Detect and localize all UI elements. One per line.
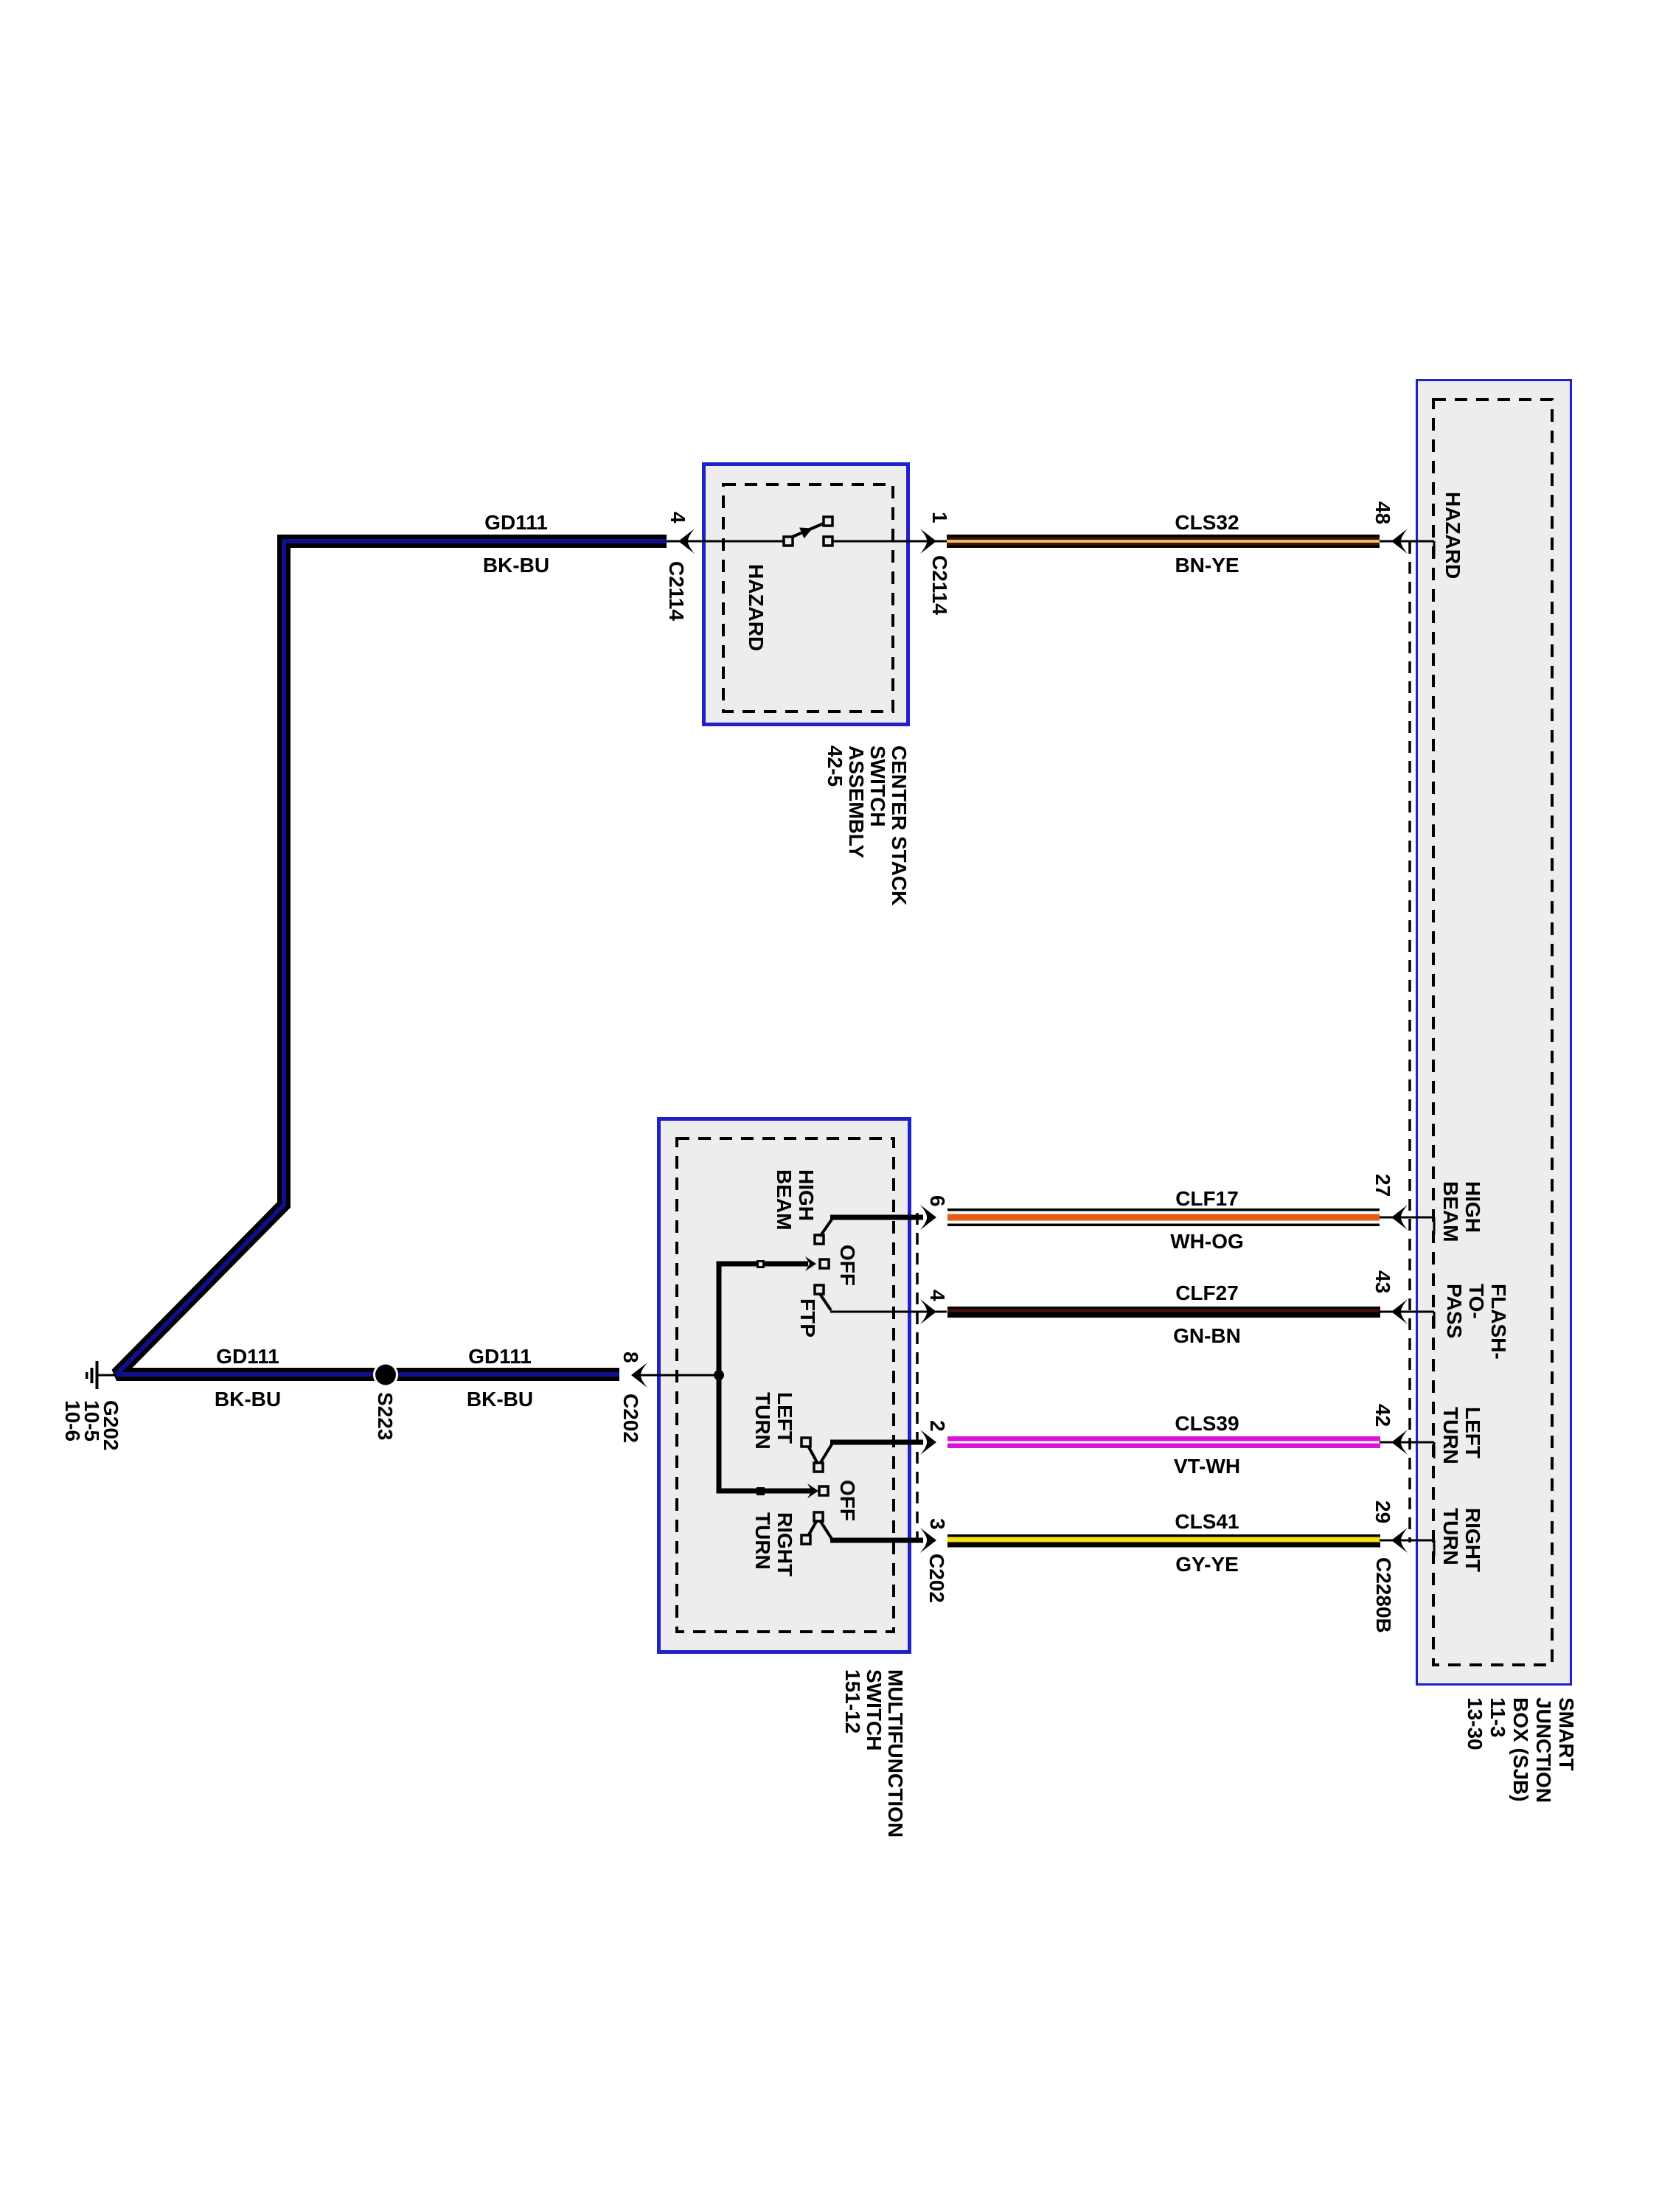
svg-text:FLASH-: FLASH-	[1487, 1284, 1510, 1360]
svg-text:MULTIFUNCTION: MULTIFUNCTION	[884, 1669, 907, 1837]
svg-text:SWITCH: SWITCH	[866, 745, 889, 827]
svg-text:HAZARD: HAZARD	[745, 564, 768, 651]
svg-text:SWITCH: SWITCH	[863, 1669, 886, 1750]
svg-text:HIGH: HIGH	[1461, 1181, 1484, 1233]
svg-text:GD111: GD111	[484, 511, 548, 534]
svg-text:6: 6	[926, 1195, 949, 1207]
svg-text:42-5: 42-5	[824, 745, 846, 787]
svg-text:GD111: GD111	[468, 1345, 532, 1368]
svg-text:CENTER STACK: CENTER STACK	[888, 745, 911, 905]
svg-text:11-3: 11-3	[1486, 1697, 1509, 1738]
svg-text:1: 1	[928, 512, 951, 524]
svg-text:BN-YE: BN-YE	[1175, 554, 1239, 577]
svg-text:CLF17: CLF17	[1175, 1187, 1239, 1210]
svg-text:C202: C202	[925, 1554, 948, 1603]
svg-text:HAZARD: HAZARD	[1441, 492, 1464, 579]
svg-text:29: 29	[1371, 1500, 1394, 1523]
svg-text:PASS: PASS	[1443, 1284, 1466, 1338]
svg-text:TURN: TURN	[1439, 1508, 1462, 1565]
svg-text:CLS39: CLS39	[1175, 1412, 1239, 1435]
svg-text:TURN: TURN	[1439, 1407, 1462, 1464]
svg-text:C202: C202	[619, 1394, 642, 1443]
svg-text:WH-OG: WH-OG	[1170, 1230, 1244, 1253]
svg-text:RIGHT: RIGHT	[1461, 1508, 1484, 1572]
svg-text:151-12: 151-12	[841, 1669, 864, 1733]
svg-text:OFF: OFF	[836, 1480, 859, 1521]
svg-text:S223: S223	[374, 1392, 397, 1440]
svg-text:3: 3	[926, 1518, 949, 1530]
svg-text:OFF: OFF	[836, 1245, 859, 1286]
svg-text:10-6: 10-6	[61, 1400, 84, 1441]
svg-text:GD111: GD111	[216, 1345, 279, 1368]
svg-text:ASSEMBLY: ASSEMBLY	[845, 745, 868, 858]
svg-text:CLS32: CLS32	[1175, 511, 1239, 534]
svg-text:FTP: FTP	[796, 1298, 819, 1338]
svg-text:13-30: 13-30	[1464, 1697, 1486, 1750]
svg-text:SMART: SMART	[1555, 1697, 1578, 1771]
svg-text:LEFT: LEFT	[773, 1392, 796, 1444]
svg-text:TO-: TO-	[1465, 1284, 1488, 1319]
svg-text:BEAM: BEAM	[773, 1169, 796, 1230]
svg-text:TURN: TURN	[751, 1392, 774, 1450]
svg-text:GY-YE: GY-YE	[1175, 1553, 1239, 1576]
svg-text:VT-WH: VT-WH	[1174, 1455, 1240, 1478]
svg-text:C2280B: C2280B	[1372, 1557, 1395, 1633]
svg-text:43: 43	[1371, 1270, 1394, 1293]
svg-text:JUNCTION: JUNCTION	[1532, 1697, 1555, 1803]
svg-text:BK-BU: BK-BU	[483, 554, 549, 577]
svg-text:HIGH: HIGH	[795, 1169, 818, 1221]
svg-text:2: 2	[926, 1420, 949, 1432]
svg-text:GN-BN: GN-BN	[1173, 1324, 1241, 1347]
svg-text:RIGHT: RIGHT	[773, 1512, 796, 1576]
svg-text:CLS41: CLS41	[1175, 1510, 1239, 1533]
svg-text:C2114: C2114	[928, 555, 951, 615]
svg-text:42: 42	[1371, 1404, 1394, 1427]
svg-text:48: 48	[1371, 501, 1394, 524]
svg-text:CLF27: CLF27	[1175, 1281, 1239, 1304]
svg-text:BOX (SJB): BOX (SJB)	[1509, 1697, 1532, 1802]
svg-text:BEAM: BEAM	[1439, 1181, 1462, 1242]
svg-text:C2114: C2114	[665, 561, 688, 621]
svg-text:8: 8	[619, 1352, 642, 1363]
svg-text:27: 27	[1371, 1174, 1394, 1197]
svg-text:TURN: TURN	[751, 1512, 774, 1570]
svg-text:4: 4	[667, 512, 689, 524]
svg-text:4: 4	[926, 1290, 949, 1301]
svg-text:LEFT: LEFT	[1461, 1407, 1484, 1458]
svg-text:BK-BU: BK-BU	[467, 1388, 533, 1411]
svg-text:BK-BU: BK-BU	[215, 1388, 281, 1411]
